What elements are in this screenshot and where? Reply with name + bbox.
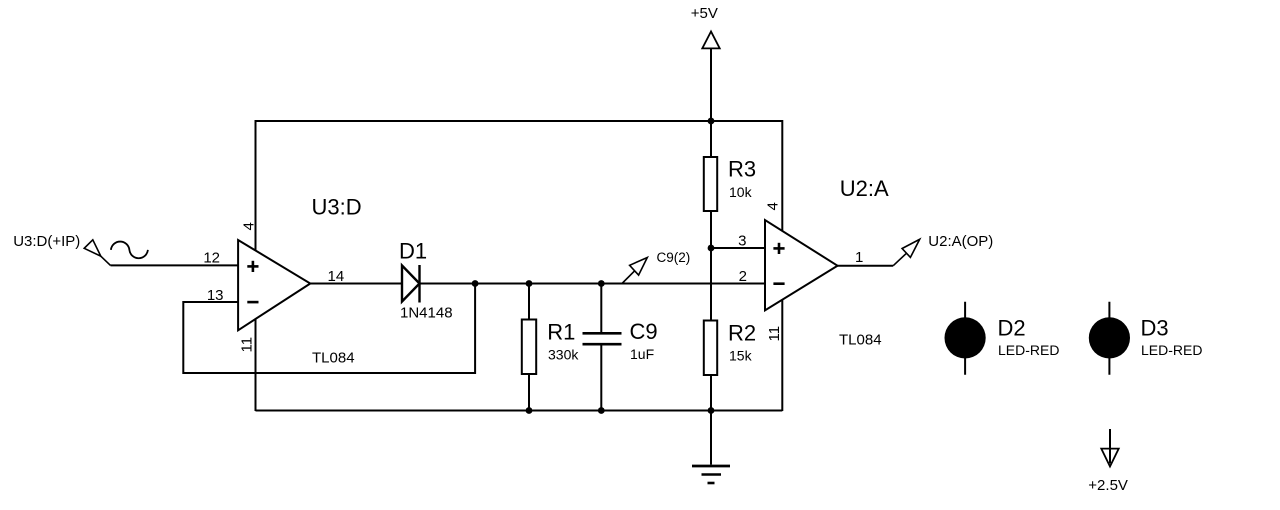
svg-text:11: 11 bbox=[239, 337, 256, 353]
svg-text:LED-RED: LED-RED bbox=[1141, 342, 1202, 358]
wire R1 bottom stub bbox=[528, 373, 530, 411]
wire U2 output bbox=[837, 265, 893, 267]
power symbol +2.5V bbox=[1088, 429, 1128, 494]
svg-text:TL084: TL084 bbox=[839, 331, 882, 348]
svg-text:R1: R1 bbox=[547, 319, 575, 344]
svg-text:11: 11 bbox=[766, 326, 783, 342]
svg-text:U3:D: U3:D bbox=[312, 195, 362, 220]
wire U2 pin 4 drop bbox=[781, 120, 783, 231]
junction dot C9 bottom bbox=[598, 407, 605, 414]
svg-text:D2: D2 bbox=[998, 315, 1026, 340]
op-amp U3 triangle bbox=[238, 240, 310, 330]
svg-text:3: 3 bbox=[738, 233, 746, 250]
diode D1 bbox=[402, 265, 420, 303]
svg-text:U2:A(OP): U2:A(OP) bbox=[928, 233, 993, 250]
svg-text:U3:D(+IP): U3:D(+IP) bbox=[13, 233, 80, 250]
junction dot feedback / D1 bbox=[472, 280, 479, 287]
wire R3 top stub bbox=[710, 120, 712, 158]
svg-text:LED-RED: LED-RED bbox=[998, 342, 1059, 358]
svg-text:D3: D3 bbox=[1141, 315, 1169, 340]
LED D2 bbox=[945, 302, 986, 375]
ground bbox=[692, 411, 730, 484]
wire U3 pin 13 feedback loop bbox=[183, 284, 475, 374]
junction dot R1 top bbox=[526, 280, 533, 287]
wire R2 bottom stub bbox=[710, 374, 712, 411]
LED D3 bbox=[1089, 302, 1130, 375]
svg-text:D1: D1 bbox=[399, 239, 427, 264]
junction dot R1 bottom bbox=[526, 407, 533, 414]
svg-text:+5V: +5V bbox=[691, 5, 718, 22]
svg-text:15k: 15k bbox=[729, 347, 753, 363]
svg-text:TL084: TL084 bbox=[312, 350, 355, 367]
svg-text:C9(2): C9(2) bbox=[657, 250, 691, 265]
wire U3 pin 4 drop bbox=[255, 120, 257, 251]
wire D1 cathode to U2 pin 2 bbox=[420, 283, 767, 285]
svg-text:U2:A: U2:A bbox=[840, 176, 889, 201]
probe arrow C9(2) bbox=[622, 258, 647, 284]
wire bottom rail bbox=[256, 410, 783, 412]
capacitor C9 bbox=[583, 282, 622, 411]
svg-text:1N4148: 1N4148 bbox=[400, 305, 453, 322]
wire U3 pin 11 drop bbox=[255, 319, 257, 412]
output terminal U2:A(OP) bbox=[893, 239, 920, 265]
svg-text:C9: C9 bbox=[630, 319, 658, 344]
op-amp U3 minus sign bbox=[247, 301, 258, 304]
wire pin 3 bbox=[711, 247, 766, 249]
svg-text:R3: R3 bbox=[728, 157, 756, 182]
wire input to U3 pin 12 bbox=[111, 264, 240, 266]
wire U2 pin 11 drop bbox=[781, 300, 783, 412]
op-amp U3 plus sign bbox=[247, 261, 258, 272]
svg-text:1uF: 1uF bbox=[630, 346, 654, 362]
svg-text:4: 4 bbox=[765, 202, 782, 210]
wire U3 output to D1 bbox=[309, 283, 403, 285]
wire R3 bottom to R2 top bbox=[710, 210, 712, 321]
svg-text:12: 12 bbox=[203, 250, 220, 267]
input terminal symbol bbox=[84, 240, 110, 266]
junction dot divider / pin 3 bbox=[708, 245, 715, 252]
junction dot ground bbox=[708, 407, 715, 414]
sine source symbol bbox=[111, 242, 148, 259]
svg-text:R2: R2 bbox=[728, 320, 756, 345]
junction dot C9 top bbox=[598, 280, 605, 287]
resistor R3 bbox=[704, 157, 717, 211]
svg-text:2: 2 bbox=[739, 268, 747, 285]
svg-text:1: 1 bbox=[855, 249, 863, 266]
op-amp U2 plus sign bbox=[773, 243, 784, 254]
junction dot +5V / top rail bbox=[708, 118, 715, 125]
svg-text:14: 14 bbox=[328, 268, 345, 285]
svg-text:10k: 10k bbox=[729, 184, 753, 200]
resistor R2 bbox=[704, 321, 717, 376]
wire top rail bbox=[256, 120, 783, 122]
wire R1 top stub bbox=[528, 282, 530, 320]
svg-text:330k: 330k bbox=[548, 346, 579, 362]
svg-text:+2.5V: +2.5V bbox=[1088, 477, 1128, 494]
resistor R1 bbox=[522, 320, 536, 375]
op-amp U2 minus sign bbox=[773, 282, 784, 285]
svg-text:4: 4 bbox=[241, 222, 258, 230]
op-amp U2 triangle bbox=[765, 220, 838, 310]
power symbol +5V bbox=[691, 5, 720, 122]
